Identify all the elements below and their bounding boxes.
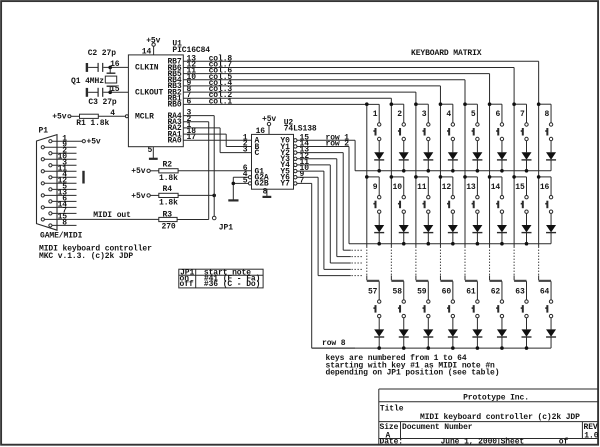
wire R2 to U2 G1 pin 6: [178, 170, 251, 172]
svg-text:3: 3: [243, 146, 248, 155]
U2 output Y3 pin 12: [294, 152, 310, 161]
svg-text:Prototype Inc.: Prototype Inc.: [463, 393, 529, 402]
svg-text:8: 8: [62, 219, 67, 228]
svg-text:JP1: JP1: [219, 223, 233, 232]
junction key 60 to row wire: [451, 346, 455, 350]
title block: [379, 389, 599, 447]
wire R1 to MCLR pin 4: [98, 109, 128, 118]
svg-text:14: 14: [142, 48, 152, 57]
svg-text:+5v: +5v: [87, 138, 101, 147]
key 62 switch: [490, 281, 504, 329]
wire col.7 net from RB6: [183, 60, 514, 104]
svg-text:16: 16: [256, 127, 266, 136]
wire RA1 to U2 B: [183, 127, 251, 146]
wire col 5 jog into row 8: [465, 275, 477, 280]
key 5 switch: [463, 102, 479, 152]
junction node CLKIN/Q1: [108, 66, 112, 70]
svg-text:270: 270: [162, 222, 176, 231]
svg-text:Document Number: Document Number: [402, 423, 473, 432]
wire col.5 net from RB4: [183, 73, 465, 104]
junction key 3 to row wire: [427, 169, 431, 173]
svg-text:June 1, 2000: June 1, 2000: [441, 438, 498, 447]
diode key 62: [497, 329, 507, 348]
P1 pin 12: [41, 177, 76, 186]
wire R3 to RA3 net: [177, 219, 209, 221]
matrix bus verticals: [367, 104, 539, 246]
svg-text:row 8: row 8: [322, 339, 346, 348]
+5v power symbol at U1 pin 14: [142, 36, 161, 56]
ground for G2A G2B: [228, 177, 238, 200]
P1 pin 11: [41, 164, 76, 173]
wire col.6 net from RB5: [183, 67, 489, 105]
wire MIDI out net from P1 pin 15 to R3: [77, 211, 159, 220]
diode key 61: [472, 329, 482, 348]
junction key 61 to row wire: [476, 346, 480, 350]
svg-text:62: 62: [491, 287, 501, 296]
junction key 58 to row wire: [402, 346, 406, 350]
wire row 3 net from Y2 (dotted continuation): [297, 153, 363, 251]
junction node CLKOUT/Q1: [108, 91, 112, 95]
svg-text:MCLR: MCLR: [135, 113, 154, 122]
key 59 switch: [416, 281, 430, 329]
P1 pin 10: [41, 152, 76, 161]
junction key 10 to row wire: [402, 242, 406, 246]
diode key 12: [448, 225, 458, 244]
svg-text:MIDI out: MIDI out: [93, 211, 131, 220]
+5v power symbol at P1 pin 1: [82, 138, 101, 147]
junction key 11 to row wire: [427, 242, 431, 246]
capacitor C3 27p: [87, 88, 128, 107]
diode key 4: [448, 152, 458, 171]
U2 output Y0 pin 15: [294, 133, 310, 142]
diode key 60: [448, 329, 458, 348]
junction key 2 to row wire: [402, 169, 406, 173]
svg-text:5: 5: [471, 110, 476, 119]
wire col.3 net from RB2: [183, 85, 416, 104]
P1 pin 2: [49, 146, 77, 155]
wire col 7 jog into row 8: [514, 275, 526, 280]
svg-text:Title: Title: [380, 404, 404, 413]
svg-text:CLKIN: CLKIN: [135, 64, 159, 73]
diode key 1: [374, 152, 384, 171]
wire row 2 net from Y1 to matrix: [297, 139, 350, 243]
junction key 4 to row wire: [451, 169, 455, 173]
svg-text:1.8k: 1.8k: [159, 198, 178, 207]
junction key 12 to row wire: [451, 242, 455, 246]
key 57 switch: [367, 281, 381, 329]
junction key 9 to row wire: [377, 242, 381, 246]
U2 G2B pin 5 with wire to ground: [233, 176, 251, 185]
key 1 switch: [365, 102, 381, 152]
wire row 2 return: [349, 243, 551, 245]
ground at U2 pin 8: [263, 187, 272, 197]
svg-text:15: 15: [515, 183, 525, 192]
ground at U1 pin 5: [147, 146, 157, 159]
wire RA0 to U2 A: [183, 133, 251, 142]
svg-text:57: 57: [368, 287, 378, 296]
diode key 16: [546, 225, 556, 244]
wire col 8 jog into row 8: [539, 275, 551, 280]
svg-text:3: 3: [422, 110, 427, 119]
diode key 6: [497, 152, 507, 171]
svg-text:60: 60: [442, 287, 452, 296]
diode key 2: [399, 152, 409, 171]
P1 pin 8: [49, 219, 77, 228]
wire row 1 net from Y0 to matrix: [297, 134, 356, 171]
resistor R2 1.8k: [150, 160, 178, 182]
svg-text:R1 1.8k: R1 1.8k: [76, 119, 109, 128]
diode key 64: [546, 329, 556, 348]
svg-text:RA0: RA0: [167, 137, 181, 146]
diode key 57: [374, 329, 384, 348]
wire col 1 jog into row 8: [367, 275, 379, 280]
key 10 switch: [390, 175, 406, 225]
key 11 switch: [414, 175, 430, 225]
svg-text:C2 27p: C2 27p: [88, 49, 117, 58]
diode key 5: [472, 152, 482, 171]
svg-text:1.8k: 1.8k: [159, 174, 178, 183]
svg-text:61: 61: [466, 287, 476, 296]
junction key 5 to row wire: [476, 169, 480, 173]
svg-text:12: 12: [442, 183, 452, 192]
+5v power symbol at R2: [131, 167, 150, 176]
U2 output Y6 pin 9: [294, 170, 305, 179]
wire RA3 to R3 MIDI out: [183, 115, 208, 220]
junction key 1 to row wire: [377, 169, 381, 173]
svg-text:1.0: 1.0: [584, 432, 598, 441]
svg-text:Y7: Y7: [280, 180, 290, 189]
key 64 switch: [539, 281, 553, 329]
P1 pin 7: [49, 207, 77, 216]
svg-text:RB0: RB0: [167, 101, 181, 110]
P1 pin 1: [49, 134, 82, 143]
key 14 switch: [488, 175, 504, 225]
svg-text:R3: R3: [163, 210, 173, 219]
P1 pin 6: [49, 195, 77, 204]
U2 output Y1 pin 14: [294, 139, 310, 148]
P1 pin 14: [41, 201, 76, 210]
wire row 8 return: [312, 347, 551, 349]
key 63 switch: [514, 281, 528, 329]
svg-text:4: 4: [110, 109, 115, 118]
diode key 59: [423, 329, 433, 348]
key 3 switch: [414, 102, 430, 152]
resistor R4 1.8k: [150, 185, 178, 207]
jumper JP1: [212, 216, 233, 232]
diode key 15: [522, 225, 532, 244]
P1 pin 9: [41, 140, 76, 149]
wire row 1 return: [355, 170, 551, 172]
svg-text:+5v: +5v: [131, 167, 145, 176]
svg-text:of: of: [559, 438, 569, 447]
diode key 7: [522, 152, 532, 171]
diode key 13: [472, 225, 482, 244]
svg-text:2: 2: [397, 110, 402, 119]
wire col 3 jog into row 8: [416, 275, 428, 280]
svg-text:#36 (C - Do): #36 (C - Do): [204, 280, 260, 289]
wire RA4 to JP1 and R4: [183, 109, 214, 217]
svg-text:C: C: [255, 149, 260, 158]
svg-text:59: 59: [417, 287, 427, 296]
svg-text:MKC v.1.3. (c)2k JDP: MKC v.1.3. (c)2k JDP: [39, 252, 133, 261]
U2 output Y4 pin 11: [294, 158, 310, 167]
key 9 switch: [365, 175, 381, 225]
svg-text:off: off: [180, 280, 194, 289]
svg-text:16: 16: [540, 183, 550, 192]
diode key 58: [399, 329, 409, 348]
diode key 8: [546, 152, 556, 171]
svg-text:74LS138: 74LS138: [284, 124, 317, 133]
diode key 14: [497, 225, 507, 244]
+5v power symbol at U2 pin 16: [256, 115, 277, 136]
U2 output Y5 pin 10: [294, 164, 310, 173]
wire col 6 jog into row 8: [490, 275, 502, 280]
key 61 switch: [465, 281, 479, 329]
svg-text:Q1 4MHz: Q1 4MHz: [71, 77, 104, 86]
diode key 11: [423, 225, 433, 244]
key 4 switch: [439, 102, 455, 152]
note text under matrix: [326, 354, 500, 378]
svg-text:13: 13: [466, 183, 476, 192]
op-amp U1 PIC16C84 body: [128, 39, 210, 146]
svg-text:8: 8: [545, 110, 550, 119]
U2 output Y7 pin 7: [294, 176, 305, 185]
key 60 switch: [440, 281, 454, 329]
wire RA2 to U2 C: [183, 121, 251, 153]
key 13 switch: [463, 175, 479, 225]
key 15 switch: [512, 175, 528, 225]
junction key 62 to row wire: [500, 346, 504, 350]
svg-text:depending on JP1 position (see: depending on JP1 position (see table): [326, 368, 500, 377]
key 8 switch: [537, 102, 553, 152]
diode key 10: [399, 225, 409, 244]
svg-text:P1: P1: [39, 127, 49, 136]
svg-text:+5v: +5v: [52, 112, 66, 121]
resistor R3 270: [159, 210, 177, 231]
wire row 7 net from Y6 (dotted continuation): [297, 177, 363, 275]
svg-text:row 2: row 2: [326, 139, 350, 148]
key 58 switch: [391, 281, 405, 329]
junction key 59 to row wire: [427, 346, 431, 350]
junction key 15 to row wire: [525, 242, 529, 246]
wire row 4 net from Y3 (dotted continuation): [297, 159, 363, 257]
wire col.8 net from RB7: [183, 54, 538, 104]
diode key 63: [522, 329, 532, 348]
P1 pin 4: [49, 170, 77, 179]
svg-text:14: 14: [491, 183, 501, 192]
junction key 63 to row wire: [525, 346, 529, 350]
svg-text:64: 64: [540, 287, 550, 296]
svg-text:10: 10: [393, 183, 403, 192]
wire col 4 jog into row 8: [440, 275, 452, 280]
diode key 9: [374, 225, 384, 244]
junction key 57 to row wire: [377, 346, 381, 350]
svg-text:6: 6: [495, 110, 500, 119]
terminator bar at P1 pin 4: [82, 171, 84, 184]
wire row 6 net from Y5 (dotted continuation): [297, 171, 363, 269]
svg-text:17: 17: [187, 133, 197, 142]
+5v power symbol at R4: [131, 192, 150, 201]
svg-text:col.8: col.8: [209, 54, 233, 63]
crystal Q1 4MHz: [71, 67, 117, 92]
wire col.1 net from RB0: [183, 97, 379, 106]
svg-text:13: 13: [187, 54, 197, 63]
svg-text:11: 11: [417, 183, 427, 192]
svg-text:58: 58: [393, 287, 403, 296]
P1 pin 5: [49, 183, 77, 192]
key 2 switch: [390, 102, 406, 152]
key 7 switch: [512, 102, 528, 152]
key 6 switch: [488, 102, 504, 152]
U2 output Y2 pin 13: [294, 146, 310, 155]
svg-text:KEYBOARD MATRIX: KEYBOARD MATRIX: [411, 49, 482, 58]
key 16 switch: [537, 175, 553, 225]
JP1 start-note table: [179, 269, 263, 290]
wire col 2 jog into row 8: [391, 275, 403, 280]
wire col.2 net from RB1: [183, 91, 391, 104]
op-amp U2 74LS138 body: [252, 118, 317, 189]
svg-text:R2: R2: [163, 160, 173, 169]
svg-text:Date:: Date:: [380, 438, 404, 447]
connector P1 GAME/MIDI body: [37, 127, 83, 241]
svg-text:GAME/MIDI: GAME/MIDI: [40, 231, 83, 240]
svg-text:1: 1: [373, 110, 378, 119]
svg-text:7: 7: [520, 110, 525, 119]
svg-text:7: 7: [300, 176, 305, 185]
P1 pin 13: [41, 189, 76, 198]
svg-text:9: 9: [373, 183, 378, 192]
svg-text:+5v: +5v: [131, 192, 145, 201]
U2 G2A pin 4 with wire to ground: [233, 170, 251, 179]
+5v power symbol at R1: [52, 112, 71, 121]
svg-text:63: 63: [515, 287, 525, 296]
svg-text:5: 5: [147, 146, 152, 155]
matrix column continuation (dotted, rows 3-7 omitted): [367, 247, 539, 276]
P1 pin 15: [41, 213, 76, 222]
wire row 8 net from Y7 to matrix: [297, 183, 355, 348]
wire R4 to RA4/JP1 net: [178, 194, 214, 196]
diode key 3: [423, 152, 433, 171]
svg-text:R4: R4: [163, 185, 173, 194]
junction RA4/R4: [212, 194, 216, 198]
resistor R1 1.8k: [71, 114, 110, 128]
wire row 5 net from Y4 (dotted continuation): [297, 165, 363, 263]
junction key 7 to row wire: [525, 169, 529, 173]
P1 pin 3: [49, 158, 77, 167]
junction key 13 to row wire: [476, 242, 480, 246]
capacitor C2 27p: [87, 49, 128, 72]
svg-text:C3 27p: C3 27p: [88, 98, 117, 107]
svg-text:CLKOUT: CLKOUT: [135, 89, 164, 98]
wire col.4 net from RB3: [183, 79, 440, 104]
svg-text:5: 5: [243, 176, 248, 185]
svg-text:Sheet: Sheet: [501, 438, 525, 447]
svg-text:4: 4: [446, 110, 451, 119]
junction key 6 to row wire: [500, 169, 504, 173]
svg-text:MIDI keyboard controller (c)2k: MIDI keyboard controller (c)2k JDP: [420, 413, 580, 422]
key 12 switch: [439, 175, 455, 225]
junction key 14 to row wire: [500, 242, 504, 246]
